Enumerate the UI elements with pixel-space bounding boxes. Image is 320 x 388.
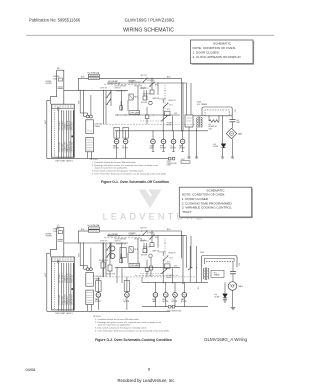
dash-dot wire: [164, 238, 166, 263]
svg-text:WHT: WHT: [181, 159, 185, 161]
wire: [172, 116, 174, 131]
wire feed 3 (live bus): [64, 89, 128, 91]
ground: [187, 156, 190, 158]
magnetron ground 2: [232, 290, 234, 307]
svg-text:STOP SW: STOP SW: [100, 88, 107, 90]
mid cluster components: [143, 231, 147, 235]
cluster wires: [103, 243, 105, 277]
HV transformer coils: [198, 117, 200, 128]
capacitor box: [96, 281, 101, 292]
svg-text:8: 8: [148, 367, 150, 372]
wire: [116, 268, 118, 283]
svg-text:MOTOR: MOTOR: [181, 301, 187, 303]
schematic note box 2: [179, 187, 251, 217]
interlock contacts 2: [110, 246, 115, 251]
small box: [120, 259, 123, 263]
svg-text:INTERLOCK SW: INTERLOCK SW: [129, 235, 142, 237]
thermal cutout: [145, 268, 149, 272]
svg-text:INTERLOCK SW: INTERLOCK SW: [129, 82, 142, 84]
svg-text:RY-3: RY-3: [167, 109, 170, 111]
HV primary wire: [193, 115, 232, 117]
key panel wires: [53, 263, 55, 310]
buzzer: [149, 101, 152, 104]
capacitor box: [123, 127, 128, 138]
bottom bus wire: [47, 310, 170, 312]
svg-text:SHORT SW: SHORT SW: [134, 86, 143, 88]
svg-text:NOTES:: NOTES:: [90, 159, 99, 161]
svg-text:04/08: 04/08: [26, 367, 36, 372]
svg-text:RY-2: RY-2: [170, 257, 173, 259]
bottom bus wire: [47, 158, 170, 160]
svg-text:STOP SW: STOP SW: [100, 240, 107, 242]
motor: [154, 282, 156, 292]
cluster wires: [103, 90, 105, 124]
thermal cutout: [145, 115, 149, 119]
motor: [183, 282, 185, 292]
interlock linkage dashed line: [104, 84, 140, 86]
low voltage transformer: [86, 268, 89, 271]
wire drop right 1: [180, 231, 182, 258]
svg-text:COOK SW: COOK SW: [159, 99, 167, 101]
control board dashed outline: [100, 276, 196, 278]
control transformer secondary box: [86, 290, 94, 304]
dash-dot wire 2: [140, 120, 161, 122]
svg-text:COIL: COIL: [53, 78, 57, 80]
svg-text:RESISTOR: RESISTOR: [209, 126, 218, 128]
svg-text:H.V.: H.V.: [234, 110, 236, 114]
svg-text:H.V. FUSE 20A: H.V. FUSE 20A: [88, 71, 100, 74]
neutral wire: [46, 101, 48, 159]
svg-text:RY-4: RY-4: [155, 84, 158, 86]
svg-text:SW2: SW2: [174, 113, 177, 115]
svg-text:SW2: SW2: [174, 266, 177, 268]
wire: [105, 243, 107, 277]
wire fuse feed: [78, 77, 88, 79]
svg-text:GLMV169G / PLMVZ169G: GLMV169G / PLMVZ169G: [125, 17, 175, 22]
magnetron 2: [228, 282, 237, 291]
svg-text:4. Oven Thermistor: Short-Cir: 4. Oven Thermistor: Short-Circuit resist…: [95, 329, 169, 332]
motor: [163, 131, 165, 140]
oven thermostat fig1: [169, 157, 172, 160]
svg-text:MONITOR SW: MONITOR SW: [116, 243, 126, 245]
mid components 2: [101, 262, 105, 268]
svg-text:2. CLOCK APPEARS ON DISPLAY: 2. CLOCK APPEARS ON DISPLAY: [193, 55, 242, 59]
svg-text:DIODE: DIODE: [213, 146, 218, 148]
svg-text:Figure O-1. Oven Schematic-Off: Figure O-1. Oven Schematic-Off Condition: [101, 180, 169, 184]
svg-text:3. Door switch activate per t: 3. Door switch activate per the diagram;…: [92, 170, 144, 173]
fuse riser: [77, 78, 79, 90]
wire: [162, 99, 164, 103]
svg-text:LOW VOLT: LOW VOLT: [94, 124, 102, 126]
svg-text:GRID LINE: GRID LINE: [72, 275, 74, 283]
svg-text:MONITOR: MONITOR: [143, 246, 151, 248]
svg-text:COIL: COIL: [53, 231, 57, 233]
svg-text:KEY UNIT (M.W.): KEY UNIT (M.W.): [56, 161, 73, 163]
svg-text:Rendered by LeadVenture, Inc.: Rendered by LeadVenture, Inc.: [118, 378, 176, 383]
component stub 2: [150, 266, 153, 270]
svg-text:(150F): (150F): [167, 165, 172, 167]
key panel exit stubs: [57, 157, 59, 158]
svg-text:MOTOR: MOTOR: [122, 148, 128, 150]
svg-text:DOOR SENSING: DOOR SENSING: [115, 86, 128, 88]
fuse F1: [88, 227, 99, 229]
svg-text:MAG: MAG: [238, 132, 243, 135]
svg-text:OVEN: OVEN: [152, 299, 156, 301]
ground: [221, 156, 224, 158]
svg-text:MOTOR: MOTOR: [113, 148, 119, 150]
svg-text:TIMER KEY: TIMER KEY: [67, 143, 69, 153]
dash-dot wire 2: [140, 273, 161, 275]
fuse F1: [88, 74, 99, 76]
svg-text:data for instructions for qual: data for instructions for quality little…: [95, 167, 128, 170]
svg-text:INTERLOCK SW: INTERLOCK SW: [108, 83, 121, 85]
svg-text:DOOR SW: DOOR SW: [147, 80, 155, 82]
HV diode 2: [223, 294, 228, 298]
door interlock switches: [107, 245, 111, 250]
relay contact: [188, 267, 192, 270]
svg-text:COMMON: COMMON: [64, 275, 66, 283]
svg-text:FILTER: FILTER: [46, 83, 53, 85]
svg-text:MOTOR: MOTOR: [170, 148, 176, 150]
mid wire: [115, 267, 180, 269]
oven lamp relay box: [129, 111, 140, 115]
svg-text:MOTOR: MOTOR: [160, 148, 166, 150]
svg-text:SEGMENT B: SEGMENT B: [69, 274, 71, 283]
svg-text:TIMER KEY: TIMER KEY: [67, 295, 69, 305]
wire drop right 2: [182, 83, 184, 131]
wire: [162, 108, 164, 131]
svg-text:KEY UNIT (M.W.): KEY UNIT (M.W.): [56, 313, 73, 315]
svg-text:1. Condition without the Scre: 1. Condition without the Screws Withheld…: [92, 161, 137, 164]
key panel exit stubs: [57, 310, 59, 311]
wire feed 3 (live bus): [64, 242, 128, 244]
svg-text:H.V.: H.V.: [237, 263, 239, 267]
HV capacitor 2: [232, 262, 234, 272]
svg-text:Figure O-2. Oven Schematic-Coo: Figure O-2. Oven Schematic-Cooking Condi…: [95, 338, 172, 342]
schematic note box 1: [191, 40, 254, 64]
motor: [182, 131, 184, 140]
svg-text:BUZZER: BUZZER: [141, 255, 148, 257]
svg-text:SHORT SW: SHORT SW: [134, 238, 143, 240]
motor: [173, 131, 175, 140]
svg-text:RY-1: RY-1: [134, 97, 138, 99]
mid wire: [115, 114, 180, 116]
HV wires 2: [196, 246, 198, 282]
svg-text:OVEN: OVEN: [150, 146, 154, 148]
svg-text:BUZZER: BUZZER: [141, 102, 148, 104]
svg-text:SEGMENT B: SEGMENT B: [69, 121, 71, 130]
svg-text:RY-3: RY-3: [167, 262, 170, 264]
control board dashed outline: [100, 123, 196, 125]
svg-text:MONITOR: MONITOR: [143, 94, 151, 96]
diode wires and ground 2: [224, 282, 226, 294]
wire feed 2: [107, 82, 187, 84]
oven lamp relay box: [129, 263, 140, 267]
branch to LV transformer: [83, 243, 85, 269]
key unit panel: [52, 104, 75, 157]
svg-text:3. Door switch activate per t: 3. Door switch activate per the diagram;…: [95, 326, 147, 329]
wire feed 2: [107, 235, 187, 237]
svg-text:GRID LINE: GRID LINE: [72, 122, 74, 130]
HV secondary loop 2: [202, 256, 238, 268]
magnetron (diamond symbol): [226, 128, 236, 138]
svg-text:POWER LEVEL: POWER LEVEL: [69, 141, 71, 153]
wire drop right 3: [186, 83, 188, 115]
svg-text:MOTOR: MOTOR: [179, 148, 185, 150]
header rule: [26, 34, 274, 36]
ground: [195, 156, 198, 158]
control transformer secondary box: [86, 137, 94, 151]
HV capacitor: [231, 116, 233, 120]
HV diode: [221, 144, 226, 148]
LV feeder wire: [80, 242, 81, 243]
svg-text:FILTER: FILTER: [46, 236, 53, 238]
ground: [231, 156, 234, 158]
relay RY-1: [129, 94, 133, 100]
wire drop right 1: [180, 78, 182, 131]
motor: [174, 282, 176, 292]
branch to LV transformer: [83, 90, 85, 116]
wire: [172, 268, 174, 283]
svg-text:MOTOR: MOTOR: [124, 301, 130, 303]
low voltage transformer: [86, 115, 89, 118]
svg-text:H.V. FUSE 20A: H.V. FUSE 20A: [88, 224, 100, 227]
svg-text:data for instructions for qual: data for instructions for quality little…: [98, 323, 131, 326]
svg-text:MAG: MAG: [239, 285, 244, 288]
svg-text:DOOR SW: DOOR SW: [147, 233, 155, 235]
neutral wire: [46, 253, 48, 311]
lower bus 2: [142, 306, 208, 308]
svg-text:SWITCH: SWITCH: [115, 88, 121, 90]
key panel terminals: [58, 107, 60, 109]
motor: [165, 282, 167, 292]
svg-text:NOTE: CONDITION OF OVEN:: NOTE: CONDITION OF OVEN:: [193, 46, 236, 50]
LV feeder wire: [80, 90, 81, 91]
mid cluster components: [143, 79, 147, 83]
svg-text:MONITOR SW: MONITOR SW: [116, 91, 126, 93]
svg-text:RY-4: RY-4: [155, 237, 158, 239]
svg-text:COMMON: COMMON: [64, 122, 66, 130]
svg-text:INTERLOCK SW: INTERLOCK SW: [108, 236, 121, 238]
loop dashes: [206, 260, 233, 262]
svg-text:POWER LEVEL: POWER LEVEL: [69, 293, 71, 305]
wire drop right 2: [182, 236, 184, 284]
relay unit cluster: [164, 104, 168, 108]
motor feed bus: [142, 281, 208, 283]
wire: [162, 252, 164, 256]
HV vertical wires and grounds: [188, 127, 190, 158]
svg-text:MOTOR: MOTOR: [95, 301, 101, 303]
wire: [105, 90, 107, 124]
svg-text:WIRING SCHEMATIC: WIRING SCHEMATIC: [123, 28, 174, 34]
HV transformer coils 2: [205, 268, 207, 281]
svg-text:RY-2: RY-2: [170, 105, 173, 107]
motor feed bus: [115, 130, 208, 132]
capacitor box: [114, 127, 119, 138]
svg-text:GLMV169G_A Wiring: GLMV169G_A Wiring: [204, 337, 248, 342]
svg-text:1. Condition without the Scre: 1. Condition without the Screws Withheld…: [95, 318, 140, 321]
svg-text:TEST SW: TEST SW: [140, 75, 147, 77]
svg-text:SWITCH: SWITCH: [115, 240, 121, 242]
svg-text:1. DOOR CLOSED: 1. DOOR CLOSED: [193, 50, 220, 54]
relay RY-1: [129, 247, 133, 253]
svg-text:4. Oven Thermistor: Short-Cir: 4. Oven Thermistor: Short-Circuit resist…: [92, 173, 166, 176]
key panel wires: [53, 110, 55, 157]
dashed board line 2: [135, 274, 178, 276]
watermark logo V: [139, 190, 162, 209]
svg-text:TEST SW: TEST SW: [140, 228, 147, 230]
motor: [152, 131, 154, 140]
svg-text:OVEN: OVEN: [167, 161, 171, 163]
svg-text:NOTES:: NOTES:: [93, 316, 102, 318]
door interlock switches: [107, 93, 111, 98]
small box: [120, 106, 123, 110]
capacitor box: [124, 281, 129, 292]
wire: [162, 260, 164, 283]
relay box RY-2: [185, 115, 193, 127]
key panel terminals: [58, 260, 60, 262]
wire fuse feed: [78, 230, 88, 232]
relay unit cluster: [164, 256, 168, 260]
HV resistor: [208, 116, 210, 121]
svg-text:MOTOR: MOTOR: [162, 301, 168, 303]
HV secondary loop: [202, 107, 232, 116]
svg-text:DOOR SENSING: DOOR SENSING: [115, 238, 128, 240]
svg-text:TRANS: TRANS: [214, 274, 221, 277]
dash-dot wire: [164, 85, 166, 110]
wire drop right 3: [186, 236, 188, 268]
buzzer: [149, 254, 152, 257]
oven thermostat fig2: [169, 305, 172, 308]
svg-text:Publication No: 5995511366: Publication No: 5995511366: [29, 17, 81, 22]
svg-text:RY-1: RY-1: [134, 249, 138, 251]
interlock linkage dashed line: [104, 236, 140, 238]
fuse riser: [77, 231, 79, 243]
svg-text:DIODE: DIODE: [215, 296, 220, 298]
key unit panel: [52, 257, 75, 310]
svg-text:MOTOR: MOTOR: [172, 301, 178, 303]
svg-text:"HIGH": "HIGH": [182, 210, 192, 214]
svg-text:H.V. TRANS: H.V. TRANS: [197, 103, 208, 106]
wire: [121, 268, 123, 283]
svg-text:COOK SW: COOK SW: [159, 251, 167, 253]
